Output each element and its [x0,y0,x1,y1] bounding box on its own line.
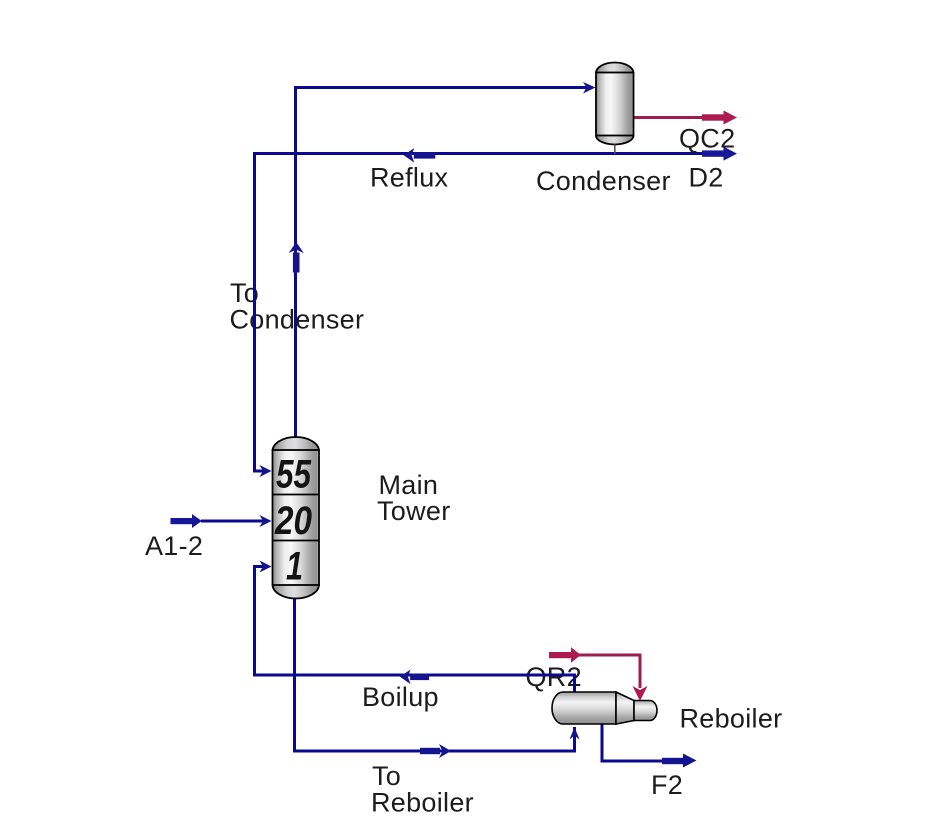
svg-text:F2: F2 [651,770,683,800]
svg-text:20: 20 [274,499,312,543]
stream D2 thick arrow [702,147,737,161]
wire: boilup line reboiler top to tower bottom section [255,567,575,693]
svg-text:Condenser: Condenser [536,166,671,196]
svg-text:Condenser: Condenser [230,305,365,335]
mid arrow left on boilup line [400,670,429,685]
svg-text:Boilup: Boilup [362,682,439,712]
stream QR2 heat line into reboiler [549,647,648,701]
svg-text:A1-2: A1-2 [145,531,203,561]
arrowhead into condenser [583,82,596,94]
svg-text:55: 55 [276,453,312,497]
up arrowhead into reboiler bottom [570,727,580,740]
wire: reflux line from condenser bottom to tower top section [255,154,703,472]
svg-text:Reflux: Reflux [370,163,449,193]
up arrow on To Condenser line [289,242,304,273]
condenser vessel [596,63,634,155]
svg-text:Tower: Tower [377,496,451,526]
svg-text:QC2: QC2 [679,124,735,154]
svg-text:1: 1 [286,545,303,589]
stream A1-2 feed line [171,514,272,528]
mid arrow right on To Reboiler line [420,744,451,758]
wire: bottoms line tower bottom to reboiler [295,598,575,751]
svg-text:To: To [372,761,401,791]
stream QC2 heat line from condenser [634,111,738,125]
svg-text:Reboiler: Reboiler [371,788,474,818]
reboiler vessel [552,692,657,724]
svg-text:D2: D2 [689,163,724,193]
arrowhead reflux into tower section 55 [260,465,272,477]
wire: overhead vapor line tower top to condenser [296,88,589,438]
main tower column [273,437,320,599]
mid arrow left on reflux line [404,148,436,163]
arrowhead boilup into tower section 1 [260,561,272,573]
stream F2 from reboiler bottom [602,724,697,768]
svg-text:Reboiler: Reboiler [680,704,783,734]
